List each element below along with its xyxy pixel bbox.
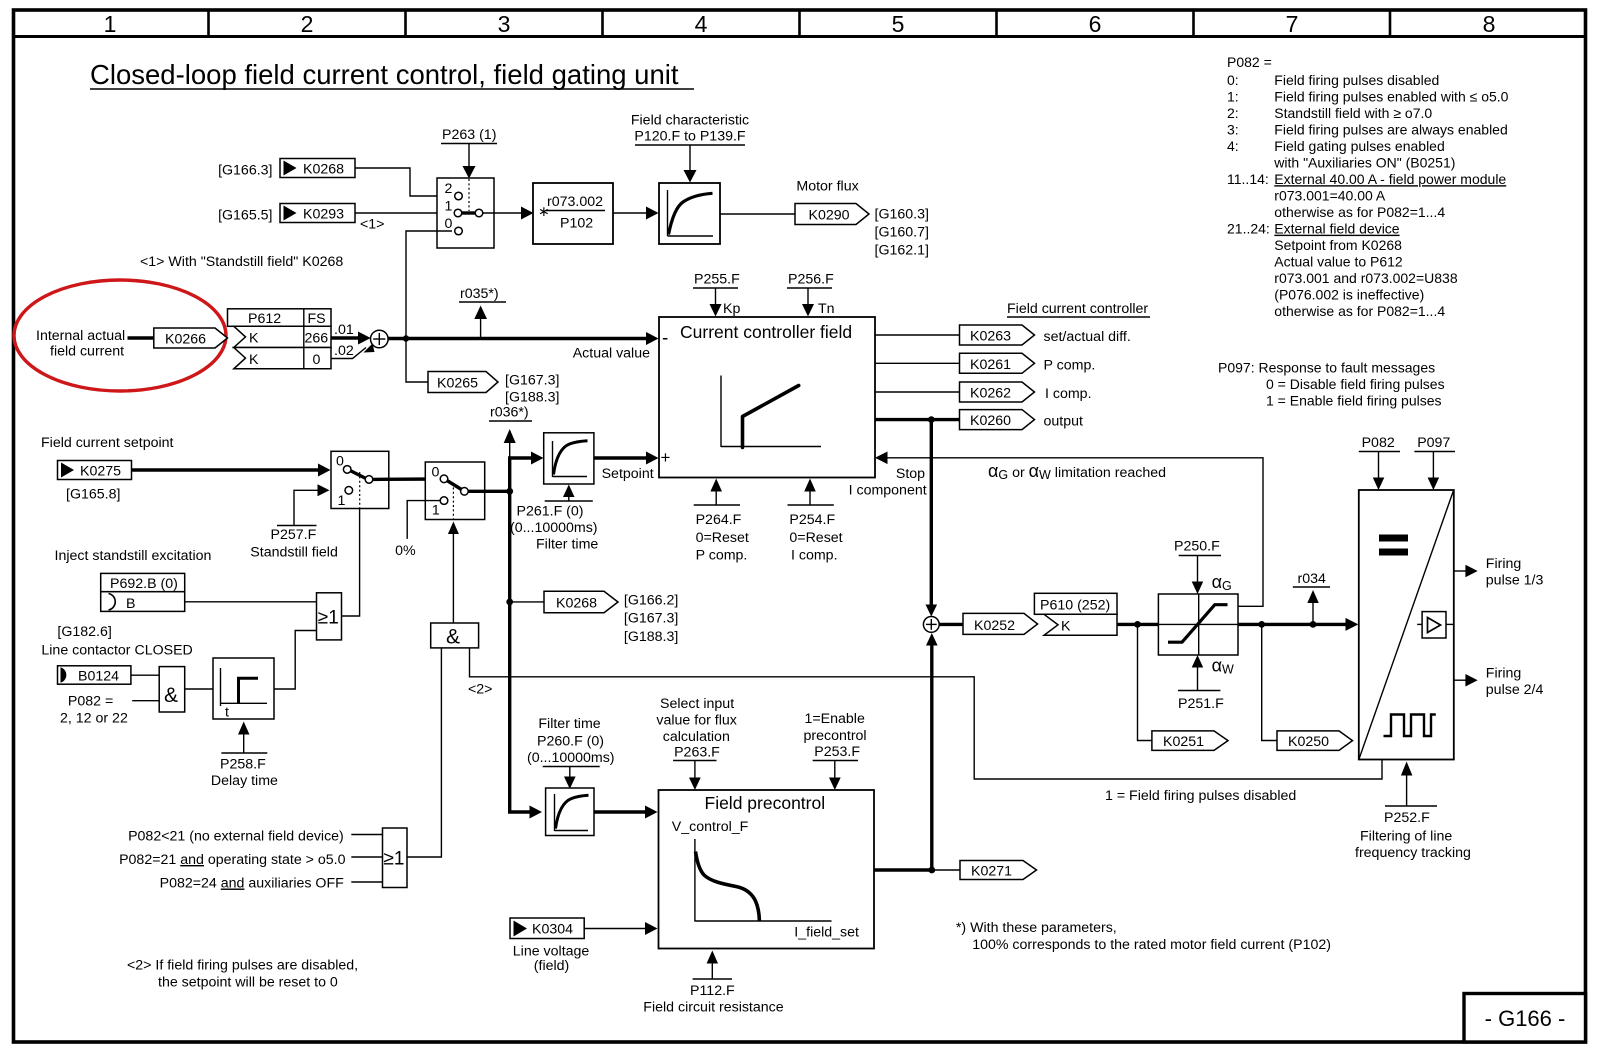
- svg-text:P257.F: P257.F: [271, 527, 317, 543]
- wire switch contact 0 to actual-value node and K0265: [406, 231, 452, 382]
- junction K0268 tap: [506, 599, 513, 606]
- wire P692.B to OR gate: [185, 601, 317, 603]
- adder (precontrol sum): [923, 617, 939, 633]
- adder (actual value): [371, 330, 389, 348]
- svg-text:P612: P612: [248, 311, 281, 327]
- switch S2 standstill-field selector: [331, 451, 389, 509]
- gate AND (firing disable): [431, 623, 479, 649]
- svg-text:Field firing pulses are always: Field firing pulses are always enabled: [1274, 122, 1507, 138]
- svg-text:K0266: K0266: [165, 332, 206, 348]
- svg-text:Field circuit resistance: Field circuit resistance: [643, 1000, 783, 1016]
- block Field precontrol: [659, 790, 875, 949]
- svg-text:K0293: K0293: [303, 207, 344, 223]
- wires conditions to OR gate: [351, 834, 382, 836]
- connector K0266 (output): [154, 328, 228, 348]
- connector K0261 (output): [960, 353, 1096, 373]
- switch S1 flux-source selector P263: [437, 178, 494, 248]
- svg-text:frequency tracking: frequency tracking: [1355, 845, 1471, 861]
- parameter P252.F filtering of line frequency tracking: [1355, 762, 1471, 862]
- junction precontrol output: [928, 867, 935, 874]
- column dividers: [209, 10, 1391, 37]
- svg-text:2, 12 or 22: 2, 12 or 22: [60, 711, 128, 727]
- wire AND to timer: [185, 688, 213, 690]
- svg-text:[G165.8]: [G165.8]: [66, 487, 120, 503]
- wire to K0266: [128, 336, 155, 339]
- svg-text:Select input: Select input: [660, 696, 734, 712]
- svg-text:K0262: K0262: [970, 386, 1011, 402]
- svg-text:r034: r034: [1298, 571, 1327, 587]
- wire B0124 to AND: [131, 674, 159, 676]
- wire setpoint down to precontrol filter: [510, 491, 530, 812]
- svg-text:P263 (1): P263 (1): [442, 127, 496, 143]
- svg-text:P260.F (0): P260.F (0): [537, 734, 604, 750]
- wire K0304 to precontrol: [584, 928, 646, 930]
- svg-text:t: t: [225, 705, 229, 721]
- output Firing pulse 1/3: [1454, 556, 1544, 589]
- svg-text:Actual value to P612: Actual value to P612: [1274, 254, 1403, 270]
- svg-text:V_control_F: V_control_F: [672, 819, 749, 835]
- svg-text:0 = Disable field firing pulse: 0 = Disable field firing pulses: [1266, 376, 1445, 392]
- svg-text:[G160.3]: [G160.3]: [875, 207, 929, 223]
- connector K0275 (input): [58, 461, 132, 480]
- block timer (delay): [213, 658, 274, 721]
- svg-text:P692.B (0): P692.B (0): [110, 576, 178, 592]
- svg-text:Internal actual: Internal actual: [36, 328, 125, 344]
- svg-text:2: 2: [445, 181, 453, 197]
- parameter P251.F: [1178, 655, 1224, 712]
- wire filter to precontrol block: [594, 810, 645, 813]
- svg-text:Setpoint: Setpoint: [602, 466, 654, 482]
- svg-text:(0...10000ms): (0...10000ms): [510, 520, 598, 536]
- svg-text:K0261: K0261: [970, 357, 1011, 373]
- connector K0271 (output): [960, 861, 1037, 880]
- svg-text:P250.F: P250.F: [1174, 539, 1220, 555]
- wire P612 row2 to adder (diagonal): [331, 348, 366, 359]
- svg-text:.01: .01: [334, 322, 354, 338]
- svg-text:1=Enable: 1=Enable: [805, 711, 865, 727]
- svg-text:value for flux: value for flux: [656, 713, 736, 729]
- svg-text:P082 =: P082 =: [1227, 54, 1272, 70]
- svg-text:P258.F: P258.F: [220, 757, 266, 773]
- svg-text:P comp.: P comp.: [1044, 357, 1096, 373]
- wire AND to firing unit (disable): [470, 648, 1383, 779]
- svg-text:6: 6: [1089, 11, 1102, 37]
- svg-text:1: 1: [104, 11, 117, 37]
- wire limiter to firing unit: [1238, 623, 1347, 626]
- svg-text:Field firing pulses disabled: Field firing pulses disabled: [1274, 72, 1439, 88]
- svg-text:11..14:: 11..14:: [1227, 171, 1269, 187]
- wire precontrol up to adder: [930, 645, 933, 870]
- svg-text:K0263: K0263: [970, 329, 1011, 345]
- svg-text:K0252: K0252: [974, 618, 1015, 634]
- svg-text:K0268: K0268: [303, 162, 344, 178]
- svg-text:I component: I component: [849, 483, 927, 499]
- svg-text:21..24:: 21..24:: [1227, 221, 1270, 237]
- svg-text:r036*): r036*): [490, 405, 529, 421]
- svg-text:[G167.3]: [G167.3]: [624, 611, 678, 627]
- svg-text:K0260: K0260: [970, 413, 1011, 429]
- svg-text:Standstill field with ≥ o7.0: Standstill field with ≥ o7.0: [1274, 105, 1432, 121]
- svg-text:Actual value: Actual value: [573, 346, 650, 362]
- svg-text:Field gating pulses enabled: Field gating pulses enabled: [1274, 138, 1444, 154]
- wire to K0268: [510, 601, 544, 603]
- wire P610 to limiter: [1117, 623, 1158, 626]
- wire S3 output to junction: [468, 490, 510, 493]
- svg-text:P097: P097: [1417, 435, 1450, 451]
- svg-text:P112.F: P112.F: [690, 983, 735, 999]
- junction K0250 tap: [1258, 621, 1265, 628]
- svg-text:Firing: Firing: [1486, 666, 1521, 682]
- svg-text:r035*): r035*): [460, 286, 499, 302]
- wire tap to K0250: [1262, 624, 1277, 740]
- svg-text:Field characteristic: Field characteristic: [631, 113, 749, 129]
- note P097 block: [1218, 360, 1445, 409]
- svg-text:External 40.00 A - field power: External 40.00 A - field power module: [1274, 171, 1506, 187]
- label Field characteristic: [631, 113, 749, 183]
- column numbers: [104, 11, 1496, 37]
- block limiter: [1158, 594, 1238, 655]
- svg-text:FS: FS: [308, 311, 326, 327]
- svg-text:P082: P082: [1362, 435, 1395, 451]
- svg-text:1: 1: [445, 199, 453, 215]
- svg-text:Standstill field: Standstill field: [250, 545, 338, 561]
- svg-text:r073.001=40.00 A: r073.001=40.00 A: [1274, 188, 1386, 204]
- svg-text:B: B: [126, 596, 135, 612]
- svg-text:<1>: <1>: [360, 217, 384, 233]
- svg-text:1: 1: [338, 493, 346, 509]
- svg-text:[G162.1]: [G162.1]: [875, 243, 929, 259]
- svg-text:1 = Enable field firing pulses: 1 = Enable field firing pulses: [1266, 393, 1442, 409]
- svg-text:P610 (252): P610 (252): [1040, 598, 1110, 614]
- svg-text:P120.F to P139.F: P120.F to P139.F: [634, 129, 746, 145]
- parameter P255.F Kp: [693, 272, 740, 318]
- multiplier block * r073.002/P102: [533, 183, 613, 244]
- header strip line: [14, 35, 1586, 38]
- svg-text:P252.F: P252.F: [1384, 810, 1430, 826]
- svg-text:P253.F: P253.F: [814, 744, 860, 760]
- svg-text:0: 0: [336, 454, 344, 470]
- connector K0260 (output): [960, 410, 1084, 430]
- svg-text:3: 3: [498, 11, 511, 37]
- svg-text:P263.F: P263.F: [674, 745, 720, 761]
- svg-text:output: output: [1044, 414, 1084, 430]
- connector K0251 (output): [1152, 731, 1228, 751]
- svg-text:P264.F: P264.F: [696, 512, 742, 528]
- junction setpoint node: [506, 488, 513, 495]
- junction K0251 tap: [1134, 621, 1141, 628]
- svg-text:the setpoint will be reset to: the setpoint will be reset to 0: [158, 975, 338, 991]
- svg-text:with "Auxiliaries ON" (B0251): with "Auxiliaries ON" (B0251): [1273, 155, 1455, 171]
- svg-text:I_field_set: I_field_set: [794, 925, 859, 941]
- parameter P097: [1414, 435, 1455, 490]
- parameter P261.F labels: [510, 485, 598, 553]
- svg-text:0: 0: [432, 465, 440, 481]
- label Select input value for flux calculation P263.F: [656, 696, 736, 790]
- svg-text:otherwise as for P082=1...4: otherwise as for P082=1...4: [1274, 303, 1445, 319]
- svg-text:field current: field current: [50, 344, 124, 360]
- svg-text:K: K: [1061, 619, 1071, 635]
- svg-text:0%: 0%: [395, 543, 416, 559]
- svg-text:P097: Response to fault messag: P097: Response to fault messages: [1218, 360, 1435, 376]
- connector K0263 (output): [960, 325, 1131, 345]
- svg-text:B0124: B0124: [78, 669, 119, 685]
- svg-text:Closed-loop field current cont: Closed-loop field current control, field…: [90, 59, 679, 90]
- parameter P257.F control: [250, 484, 338, 560]
- svg-text:pulse 1/3: pulse 1/3: [1486, 573, 1544, 589]
- connector K0252 (output): [963, 613, 1038, 634]
- svg-text:Inject standstill excitation: Inject standstill excitation: [55, 548, 212, 564]
- svg-text:Stop: Stop: [896, 466, 925, 482]
- wire adder to K0252: [939, 623, 963, 626]
- svg-text:7: 7: [1286, 11, 1299, 37]
- svg-text:set/actual diff.: set/actual diff.: [1044, 329, 1131, 345]
- node 0% input: [395, 501, 440, 559]
- svg-text:P082=24 and auxiliaries OFF: P082=24 and auxiliaries OFF: [160, 876, 344, 892]
- svg-text:K0275: K0275: [80, 464, 121, 480]
- wire precontrol output: [874, 868, 932, 871]
- svg-text:(0...10000ms): (0...10000ms): [527, 750, 615, 766]
- svg-text:External field device: External field device: [1274, 221, 1400, 237]
- connector K0290 (output): [795, 204, 869, 225]
- wire OR to AND gate: [407, 648, 441, 857]
- svg-text:[G188.3]: [G188.3]: [505, 390, 559, 406]
- svg-text:4:: 4:: [1227, 138, 1239, 154]
- gate OR (P082 states): [383, 828, 408, 888]
- svg-text:5: 5: [892, 11, 905, 37]
- wire K0275 to switch S2: [132, 468, 320, 471]
- wire controller to K0263: [875, 334, 960, 336]
- block field gating unit: [1359, 490, 1454, 760]
- svg-text:[G182.6]: [G182.6]: [57, 624, 111, 640]
- svg-text:1 = Field firing pulses disabl: 1 = Field firing pulses disabled: [1105, 788, 1296, 804]
- readout r034: [1293, 571, 1330, 624]
- svg-text:P255.F: P255.F: [694, 272, 740, 288]
- readout r035*): [459, 286, 506, 339]
- connector K0250 (output): [1277, 731, 1353, 751]
- wire alpha limitation feedback: [887, 458, 1264, 607]
- gate OR (standstill): [317, 593, 342, 640]
- labels G167.3 G188.3: [505, 373, 559, 406]
- parameter P263 (1): [441, 127, 497, 179]
- wire timer to OR gate: [274, 631, 317, 690]
- svg-text:P261.F (0): P261.F (0): [517, 504, 584, 520]
- intervention point P612 / FS table: [228, 309, 332, 369]
- svg-text:[G166.3]: [G166.3]: [218, 163, 272, 179]
- svg-text:&: &: [164, 684, 178, 707]
- connector K0262 (output): [960, 382, 1092, 402]
- svg-text:.02: .02: [334, 343, 354, 359]
- svg-text:4: 4: [695, 11, 708, 37]
- connector K0268 (input): [280, 159, 355, 178]
- output Firing pulse 2/4: [1454, 666, 1544, 699]
- svg-text:0=Reset: 0=Reset: [696, 530, 749, 546]
- svg-text:P comp.: P comp.: [696, 548, 748, 564]
- svg-text:-: -: [662, 328, 668, 349]
- svg-text:P082<21 (no external field dev: P082<21 (no external field device): [128, 829, 344, 845]
- svg-text:3:: 3:: [1227, 122, 1239, 138]
- parameter P254.F reset I comp: [788, 479, 843, 564]
- connector K0304 (input): [510, 918, 584, 939]
- wire K0293 to switch contact 1: [355, 212, 452, 214]
- svg-text:2: 2: [301, 11, 314, 37]
- svg-text:Setpoint from K0268: Setpoint from K0268: [1274, 237, 1402, 253]
- svg-text:Field firing pulses enabled wi: Field firing pulses enabled with ≤ o5.0: [1274, 89, 1508, 105]
- svg-text:K0271: K0271: [971, 864, 1012, 880]
- wire S1 to S2: [373, 477, 441, 481]
- block Current controller field: [659, 317, 875, 478]
- svg-text:I comp.: I comp.: [1045, 386, 1092, 402]
- wire actual value to controller: [388, 337, 647, 340]
- wire switch to multiplier: [483, 212, 522, 214]
- svg-text:≥1: ≥1: [384, 849, 405, 870]
- connector K0265 (output): [428, 372, 498, 393]
- wire P612 row1 to adder: [331, 336, 359, 339]
- svg-text:K0268: K0268: [556, 596, 597, 612]
- label 1=Enable precontrol P253.F: [804, 711, 867, 790]
- junction: [403, 335, 409, 341]
- svg-text:P102: P102: [560, 216, 593, 232]
- junction r034 tap: [1310, 621, 1317, 628]
- svg-text:(field): (field): [534, 958, 569, 974]
- svg-text:Motor flux: Motor flux: [796, 179, 858, 195]
- svg-text:K0304: K0304: [532, 922, 573, 938]
- labels G166.2 G167.3 G188.3: [624, 593, 678, 646]
- svg-text:8: 8: [1483, 11, 1496, 37]
- svg-text:I comp.: I comp.: [791, 548, 838, 564]
- parameter P256.F Tn: [787, 272, 835, 318]
- svg-text:[G160.7]: [G160.7]: [875, 225, 929, 241]
- gate AND U1: [159, 667, 185, 712]
- svg-text:Filter time: Filter time: [536, 537, 598, 553]
- svg-text:(P076.002 is ineffective): (P076.002 is ineffective): [1274, 287, 1424, 303]
- block field characteristic curve: [659, 183, 720, 244]
- red highlight ellipse: [14, 280, 226, 391]
- wire K0268 to switch contact 2: [355, 168, 452, 196]
- binector P692.B source: [101, 573, 185, 612]
- wire field characteristic to K0290: [720, 213, 795, 215]
- svg-text:1: 1: [432, 503, 440, 519]
- wire multiplier to field characteristic: [613, 212, 647, 214]
- svg-text:100% corresponds to the rated: 100% corresponds to the rated motor fiel…: [972, 937, 1331, 953]
- svg-text:P254.F: P254.F: [789, 512, 835, 528]
- wire filter to controller + input: [594, 456, 647, 459]
- connector B0124 (binary input): [58, 666, 131, 685]
- svg-text:[G167.3]: [G167.3]: [505, 373, 559, 389]
- parameter P250.F: [1174, 539, 1221, 595]
- svg-text:αG or αW limitation reached: αG or αW limitation reached: [988, 461, 1166, 482]
- svg-text:Delay time: Delay time: [211, 773, 278, 789]
- wire P082 condition to AND: [132, 700, 159, 702]
- svg-text:P082 =: P082 =: [68, 694, 113, 710]
- svg-text:Field current controller: Field current controller: [1007, 301, 1148, 317]
- parameter P112.F field circuit resistance: [643, 951, 783, 1016]
- svg-text:1:: 1:: [1227, 89, 1239, 105]
- svg-text:≥1: ≥1: [318, 608, 339, 629]
- svg-text:K0250: K0250: [1288, 734, 1329, 750]
- svg-text:<1> With "Standstill field" K0: <1> With "Standstill field" K0268: [140, 254, 343, 270]
- wire controller output to K0260: [875, 418, 960, 421]
- svg-text:Field precontrol: Field precontrol: [705, 793, 826, 813]
- block setpoint filter P261: [544, 433, 594, 484]
- svg-text:<2>: <2>: [468, 682, 492, 698]
- svg-text:[G165.5]: [G165.5]: [218, 208, 272, 224]
- svg-text:Current controller field: Current controller field: [680, 322, 852, 342]
- svg-text:*) With these parameters,: *) With these parameters,: [956, 920, 1117, 936]
- block precontrol filter P260: [546, 788, 594, 836]
- svg-text:0: 0: [445, 216, 453, 232]
- svg-text:K0265: K0265: [437, 376, 478, 392]
- svg-text:K0251: K0251: [1163, 734, 1204, 750]
- connector K0293 (input): [280, 204, 355, 223]
- svg-text:pulse 2/4: pulse 2/4: [1486, 682, 1544, 698]
- wire controller to K0262: [875, 391, 960, 393]
- intervention point P610 (252): [1034, 593, 1117, 635]
- svg-text:calculation: calculation: [663, 729, 730, 745]
- svg-text:0: 0: [313, 352, 321, 368]
- junction controller output: [928, 416, 935, 423]
- svg-text:[G166.2]: [G166.2]: [624, 593, 678, 609]
- wire AND to switch S3 control: [452, 534, 454, 623]
- svg-text:266: 266: [305, 331, 329, 347]
- svg-text:- G166 -: - G166 -: [1485, 1006, 1566, 1031]
- svg-text:Filtering of line: Filtering of line: [1360, 829, 1452, 845]
- switch S3 reset-to-zero selector: [425, 462, 484, 520]
- svg-text:2:: 2:: [1227, 105, 1239, 121]
- connector K0268 (output): [544, 591, 618, 612]
- page label box - G166 -: [1464, 994, 1586, 1043]
- parameter P264.F reset P comp: [694, 479, 749, 564]
- labels G160.3 G160.7 G162.1: [875, 207, 929, 259]
- svg-text:K0290: K0290: [809, 208, 850, 224]
- svg-text:Line contactor CLOSED: Line contactor CLOSED: [41, 643, 192, 659]
- svg-text:P082=21 and operating state >: P082=21 and operating state > o5.0: [119, 852, 346, 868]
- svg-text:K: K: [249, 331, 259, 347]
- wire controller to K0261: [875, 362, 960, 364]
- wire tap to K0251: [1138, 624, 1152, 740]
- svg-text:Tn: Tn: [818, 301, 835, 317]
- note P082 list: [1227, 54, 1509, 319]
- svg-text:[G188.3]: [G188.3]: [624, 629, 678, 645]
- svg-text:P251.F: P251.F: [1178, 696, 1224, 712]
- svg-text:K: K: [249, 352, 259, 368]
- wire K0260 output down to adder: [930, 420, 933, 605]
- parameter P260.F filter labels: [527, 716, 615, 789]
- svg-text:&: &: [446, 626, 460, 649]
- svg-text:otherwise as for P082=1...4: otherwise as for P082=1...4: [1274, 204, 1445, 220]
- wire OR to switch S2 control: [342, 509, 360, 617]
- svg-text:0=Reset: 0=Reset: [789, 530, 842, 546]
- parameter P258.F delay time: [211, 722, 278, 790]
- svg-text:Firing: Firing: [1486, 556, 1521, 572]
- svg-text:r073.001 and r073.002=U838: r073.001 and r073.002=U838: [1274, 270, 1458, 286]
- readout r036*): [489, 405, 532, 459]
- svg-text:r073.002: r073.002: [547, 194, 603, 210]
- svg-text:Kp: Kp: [723, 301, 740, 317]
- svg-text:<2> If field firing pulses ar: <2> If field firing pulses are disabled,: [127, 958, 358, 974]
- svg-text:0:: 0:: [1227, 72, 1239, 88]
- parameter P082: [1359, 435, 1400, 490]
- wire junction up to filter: [510, 458, 532, 491]
- svg-text:Field current setpoint: Field current setpoint: [41, 435, 174, 451]
- svg-text:P256.F: P256.F: [788, 272, 834, 288]
- svg-text:precontrol: precontrol: [804, 728, 867, 744]
- svg-text:Filter time: Filter time: [538, 716, 600, 732]
- svg-text:+: +: [661, 448, 671, 467]
